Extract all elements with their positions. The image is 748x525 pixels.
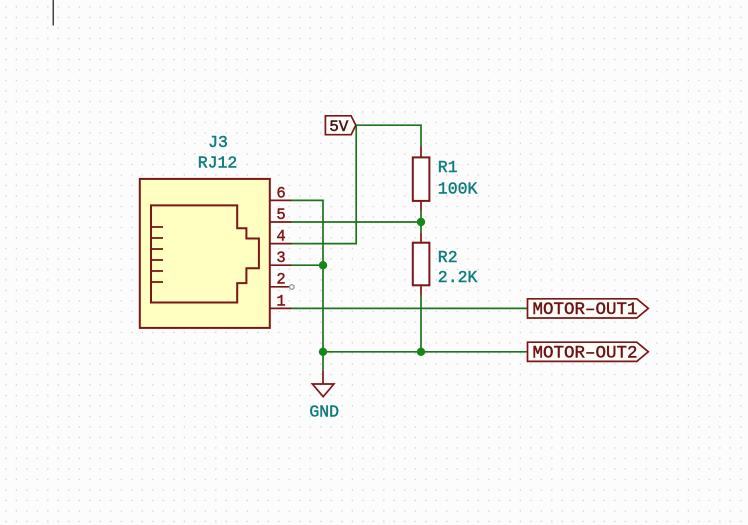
svg-text:J3: J3 bbox=[208, 133, 228, 152]
wire pin1 to MOTOR-OUT1 bbox=[292, 307, 528, 309]
svg-text:MOTOR–OUT1: MOTOR–OUT1 bbox=[533, 300, 638, 320]
wire down to GND symbol bbox=[322, 352, 324, 371]
wire 5V to R1 top bbox=[356, 125, 421, 146]
svg-text:4: 4 bbox=[276, 228, 285, 246]
wire GND row to MOTOR-OUT2 bbox=[323, 351, 528, 353]
resistor R2 bbox=[413, 233, 478, 296]
junction R1/R2 divider bbox=[417, 218, 425, 226]
hierarchical label MOTOR-OUT2 bbox=[528, 342, 649, 363]
contact lines bbox=[151, 227, 163, 282]
pin 5 bbox=[270, 221, 292, 223]
pin 3 bbox=[270, 264, 292, 266]
junction at GND tee bbox=[319, 348, 327, 356]
svg-text:MOTOR–OUT2: MOTOR–OUT2 bbox=[533, 343, 638, 363]
jack cutout drawing bbox=[151, 205, 259, 302]
junction at pin3 / vertical bus bbox=[319, 261, 327, 269]
svg-text:2.2K: 2.2K bbox=[438, 268, 478, 287]
wire R2 bottom down bbox=[420, 296, 422, 352]
pin 4 bbox=[270, 243, 292, 245]
svg-text:1: 1 bbox=[276, 292, 285, 310]
svg-text:100K: 100K bbox=[438, 180, 478, 199]
svg-text:5: 5 bbox=[276, 206, 285, 224]
svg-text:GND: GND bbox=[309, 403, 339, 422]
connector J3 RJ12 bbox=[140, 133, 294, 328]
pin 6 bbox=[270, 199, 292, 201]
black partial line top-left (sheet mark) bbox=[52, 0, 54, 26]
power flag 5V bbox=[325, 116, 355, 136]
svg-text:6: 6 bbox=[276, 184, 285, 202]
wire pin4 to 5V bbox=[292, 125, 357, 243]
wire pin3 to junction bbox=[292, 264, 324, 266]
junction R2 bottom / out2 wire bbox=[417, 348, 425, 356]
wire pin5 to R1/R2 junction bbox=[292, 221, 422, 223]
resistor R1 bbox=[413, 147, 478, 211]
wire R1 bottom to junction bbox=[420, 211, 422, 234]
svg-text:R2: R2 bbox=[438, 248, 458, 267]
hierarchical label MOTOR-OUT1 bbox=[528, 299, 649, 320]
ground bbox=[309, 371, 339, 422]
connector body bbox=[140, 179, 270, 328]
svg-text:3: 3 bbox=[276, 249, 285, 267]
svg-text:5V: 5V bbox=[329, 118, 349, 136]
svg-text:2: 2 bbox=[276, 271, 285, 289]
svg-text:R1: R1 bbox=[438, 158, 458, 177]
pin 2 bbox=[270, 286, 290, 288]
wire pin6 to vertical bus bbox=[292, 200, 324, 351]
pin 1 bbox=[270, 307, 292, 309]
svg-text:RJ12: RJ12 bbox=[198, 154, 238, 173]
